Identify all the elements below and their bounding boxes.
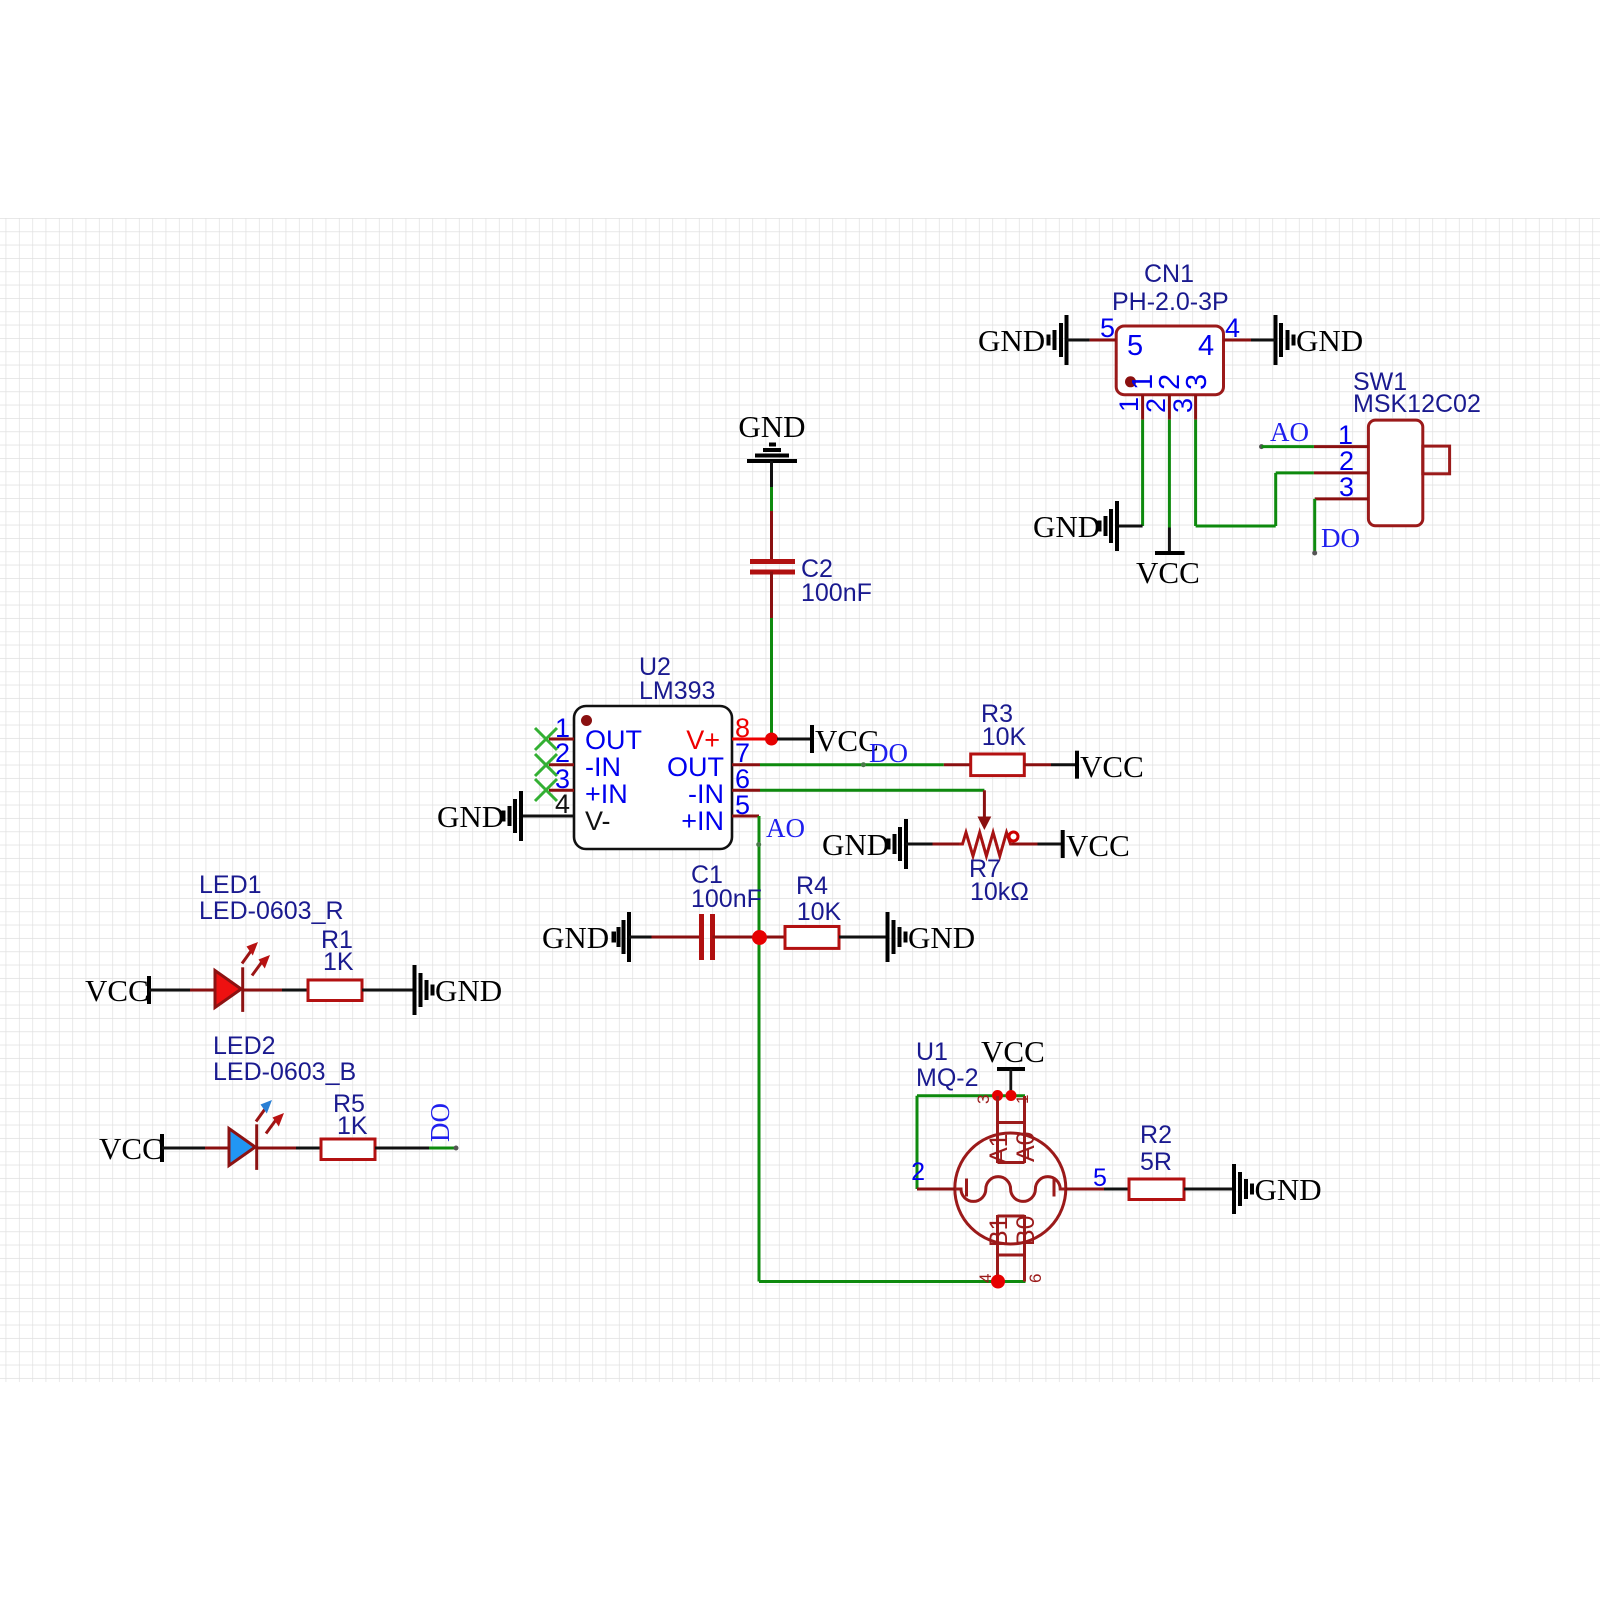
svg-text:GND: GND bbox=[435, 973, 502, 1008]
wire pin5 down (net AO) bbox=[756, 816, 761, 937]
svg-text:A1: A1 bbox=[985, 1133, 1013, 1164]
power VCC at U2 pin8 bbox=[812, 723, 879, 758]
svg-text:VCC: VCC bbox=[1136, 555, 1200, 590]
U2 pin 6 -IN bbox=[732, 764, 760, 794]
wire CN1 pin3 to SW1 pin2 (green) bbox=[1196, 420, 1314, 526]
resistor R5 1K bbox=[321, 1090, 375, 1160]
resistor R2 5R bbox=[1129, 1121, 1184, 1200]
wire R2 to GND bbox=[1184, 1188, 1234, 1191]
junction at C1/R4/AO bbox=[752, 930, 767, 945]
connector CN1 bbox=[1112, 260, 1229, 395]
power VCC below CN1 pin2 bbox=[1136, 553, 1200, 590]
LED LED2 blue bbox=[229, 1100, 284, 1170]
svg-text:VCC: VCC bbox=[981, 1034, 1045, 1069]
resistor R3 10K bbox=[971, 700, 1027, 776]
svg-text:AO: AO bbox=[1270, 417, 1309, 447]
svg-text:1: 1 bbox=[1114, 397, 1144, 412]
svg-text:5R: 5R bbox=[1140, 1148, 1172, 1176]
svg-text:10K: 10K bbox=[797, 898, 842, 926]
svg-text:LM393: LM393 bbox=[639, 677, 715, 705]
svg-text:2: 2 bbox=[911, 1158, 925, 1186]
svg-text:AO: AO bbox=[766, 813, 805, 843]
svg-text:+IN: +IN bbox=[681, 806, 724, 836]
grid background bbox=[0, 218, 1600, 1382]
LED1 labels bbox=[199, 871, 344, 925]
svg-text:10K: 10K bbox=[982, 723, 1027, 751]
junction dots at MQ-2 top bbox=[992, 1090, 1017, 1101]
svg-text:GND: GND bbox=[822, 827, 889, 862]
SW1 pin 1 bbox=[1314, 420, 1369, 450]
svg-text:LED-0603_R: LED-0603_R bbox=[199, 897, 344, 925]
power VCC at LED1 bbox=[85, 973, 149, 1008]
wire R4 to GND bbox=[839, 936, 888, 939]
U2 pin 5 +IN bbox=[732, 790, 759, 820]
svg-text:3: 3 bbox=[1168, 398, 1198, 413]
op-amp U2 LM393 bbox=[574, 653, 732, 849]
svg-text:A0: A0 bbox=[1012, 1131, 1040, 1162]
wire green MQ-2 top loop to pin2 bbox=[917, 1096, 1025, 1189]
svg-text:4: 4 bbox=[1225, 313, 1240, 343]
svg-text:MSK12C02: MSK12C02 bbox=[1353, 390, 1481, 418]
ground GND at U2 pin4 bbox=[437, 791, 521, 841]
svg-text:3: 3 bbox=[974, 1095, 993, 1104]
ground GND earth top middle bbox=[738, 409, 805, 461]
svg-text:4: 4 bbox=[1198, 330, 1214, 362]
wire LED2 to R5 bbox=[257, 1147, 321, 1150]
ground GND right of R4 bbox=[888, 912, 976, 962]
ground GND bottom left of CN1 bbox=[1033, 501, 1117, 551]
U2 pin 2 no-connect bbox=[535, 738, 574, 776]
svg-text:5: 5 bbox=[735, 790, 750, 820]
sensor U1 MQ-2 labels bbox=[916, 1038, 979, 1092]
junction at pin8 bbox=[765, 733, 778, 746]
ground GND left of CN1 pin5 bbox=[978, 315, 1067, 365]
wire junction to R4 bbox=[760, 936, 786, 939]
svg-text:5: 5 bbox=[1100, 313, 1115, 343]
power VCC at MQ-2 bbox=[981, 1034, 1045, 1091]
switch SW1 bbox=[1353, 368, 1481, 526]
ground GND left of C1 bbox=[542, 912, 629, 962]
junction at MQ-2 bottom bbox=[991, 1275, 1005, 1289]
svg-text:LED-0603_B: LED-0603_B bbox=[213, 1058, 356, 1086]
svg-text:B0: B0 bbox=[1012, 1215, 1040, 1246]
U2 pin 7 OUT bbox=[732, 738, 760, 768]
sensor U1 MQ-2 body bbox=[955, 1095, 1066, 1283]
svg-text:LED1: LED1 bbox=[199, 871, 262, 899]
svg-text:U1: U1 bbox=[916, 1038, 948, 1066]
svg-text:GND: GND bbox=[978, 323, 1045, 358]
wire pin8 to VCC bbox=[777, 738, 812, 741]
svg-text:PH-2.0-3P: PH-2.0-3P bbox=[1112, 288, 1229, 316]
svg-text:1: 1 bbox=[1013, 1095, 1032, 1104]
wire net AO down to MQ-2 bbox=[759, 937, 1026, 1282]
svg-text:GND: GND bbox=[542, 920, 609, 955]
svg-text:R2: R2 bbox=[1140, 1121, 1172, 1149]
SW1 pin 2 bbox=[1314, 446, 1369, 476]
svg-text:V+: V+ bbox=[686, 725, 720, 755]
wire C2 to U2 pin8 junction bbox=[770, 572, 773, 740]
svg-text:+IN: +IN bbox=[585, 779, 628, 809]
wire CN1 pin2 to VCC bbox=[1168, 420, 1171, 553]
wire pin7 to R3 (net DO) bbox=[760, 762, 971, 767]
CN1 pin-1 dot bbox=[1125, 376, 1136, 387]
svg-text:-IN: -IN bbox=[585, 752, 621, 782]
LED LED1 red bbox=[215, 942, 270, 1012]
U2 inside pin names bbox=[585, 725, 724, 836]
ground GND right of R1 bbox=[415, 965, 503, 1015]
wire pin6 to R7 arrow bbox=[760, 790, 991, 830]
resistor R4 10K bbox=[785, 872, 842, 948]
wire GND to C2 bbox=[770, 461, 773, 561]
svg-text:3: 3 bbox=[1339, 472, 1354, 502]
svg-text:VCC: VCC bbox=[99, 1131, 163, 1166]
svg-text:GND: GND bbox=[1033, 509, 1100, 544]
power VCC at R3 bbox=[1077, 749, 1144, 784]
svg-text:GND: GND bbox=[1255, 1172, 1322, 1207]
U2 pin 1 no-connect bbox=[535, 713, 574, 750]
wire VCC to LED1 bbox=[149, 989, 215, 992]
CN1 pin 4 bbox=[1198, 313, 1251, 362]
svg-text:2: 2 bbox=[1141, 398, 1171, 413]
resistor R1 1K bbox=[308, 926, 362, 1001]
potentiometer R7 10k bbox=[906, 832, 1063, 906]
svg-text:DO: DO bbox=[869, 738, 908, 768]
svg-text:GND: GND bbox=[437, 799, 504, 834]
wire VCC to LED2 bbox=[162, 1147, 229, 1150]
svg-text:6: 6 bbox=[1026, 1274, 1045, 1283]
MQ-2 heater coil bbox=[955, 1177, 1066, 1202]
svg-text:3: 3 bbox=[1181, 374, 1213, 390]
capacitor C1 100nF bbox=[691, 861, 762, 960]
ground GND right of R2 bbox=[1234, 1164, 1322, 1214]
wire CN1 pin1 to GND (green) bbox=[1117, 420, 1143, 526]
svg-text:CN1: CN1 bbox=[1144, 260, 1194, 288]
svg-text:OUT: OUT bbox=[585, 725, 642, 755]
svg-text:VCC: VCC bbox=[1080, 749, 1144, 784]
CN1 bottom pin stubs bbox=[1143, 395, 1196, 420]
MQ-2 pin 5 wire to R2 bbox=[1066, 1164, 1129, 1192]
ground GND right of CN1 pin4 bbox=[1276, 315, 1364, 365]
wire R3 to VCC bbox=[1024, 763, 1077, 766]
net label AO wire at SW1 bbox=[1259, 417, 1314, 449]
svg-text:-IN: -IN bbox=[688, 779, 724, 809]
svg-text:5: 5 bbox=[1127, 330, 1143, 362]
ground GND left of R7 bbox=[822, 819, 906, 869]
LED2 labels bbox=[213, 1032, 356, 1086]
svg-text:V-: V- bbox=[585, 806, 611, 836]
CN1 outside rotated pin numbers 1 2 3 bbox=[1114, 397, 1198, 413]
SW1 pin 3 bbox=[1315, 472, 1369, 502]
svg-text:OUT: OUT bbox=[667, 752, 724, 782]
svg-text:1K: 1K bbox=[323, 948, 354, 976]
MQ-2 pin 2 bbox=[911, 1158, 955, 1189]
svg-text:1K: 1K bbox=[337, 1112, 368, 1140]
svg-text:DO: DO bbox=[1321, 523, 1360, 553]
svg-text:GND: GND bbox=[738, 409, 805, 444]
U2 pin 3 no-connect bbox=[535, 764, 574, 801]
wire LED1 to R1 bbox=[243, 989, 308, 992]
svg-text:GND: GND bbox=[1296, 323, 1363, 358]
svg-text:100nF: 100nF bbox=[691, 885, 762, 913]
power VCC right of R7 bbox=[1063, 828, 1130, 863]
svg-text:VCC: VCC bbox=[1066, 828, 1130, 863]
svg-text:GND: GND bbox=[908, 920, 975, 955]
svg-text:4: 4 bbox=[555, 789, 570, 819]
capacitor C2 100nF bbox=[750, 555, 872, 607]
wire C1 to junction bbox=[713, 936, 760, 939]
svg-text:LED2: LED2 bbox=[213, 1032, 276, 1060]
wire GND to C1 bbox=[629, 936, 702, 939]
U2 pin 4 wire to GND bbox=[521, 789, 574, 819]
power VCC at LED2 bbox=[99, 1131, 163, 1166]
svg-text:B1: B1 bbox=[985, 1216, 1013, 1247]
wire CN1 pin4 to GND bbox=[1251, 339, 1276, 342]
svg-text:DO: DO bbox=[425, 1103, 455, 1142]
net label DO wire at SW1 pin3 bbox=[1312, 499, 1360, 556]
svg-text:10kΩ: 10kΩ bbox=[970, 878, 1029, 906]
wire R1 to GND bbox=[362, 989, 415, 992]
CN1 inside rotated pin names 1 2 3 bbox=[1127, 374, 1213, 390]
U2 pin 8 V+ bbox=[732, 713, 766, 743]
svg-text:VCC: VCC bbox=[85, 973, 149, 1008]
wire R5 to DO bbox=[375, 1146, 459, 1151]
svg-text:R4: R4 bbox=[796, 872, 828, 900]
wire CN1 pin5 to GND bbox=[1067, 339, 1090, 342]
CN1 pin 5 bbox=[1090, 313, 1144, 362]
svg-text:100nF: 100nF bbox=[801, 579, 872, 607]
svg-text:MQ-2: MQ-2 bbox=[916, 1064, 979, 1092]
